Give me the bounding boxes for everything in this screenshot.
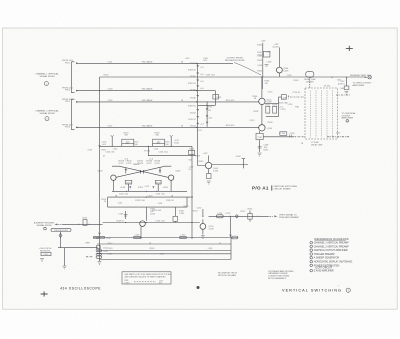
svg-text:TRIG PICKOFF: TRIG PICKOFF (54, 230, 69, 232)
svg-text:5-279: 5-279 (146, 163, 152, 165)
svg-text:93Ω CABLE: 93Ω CABLE (142, 99, 154, 102)
svg-text:93Ω CABLE: 93Ω CABLE (142, 60, 154, 63)
svg-text:DL160: DL160 (324, 86, 331, 88)
svg-text:+12V: +12V (185, 58, 190, 60)
svg-text:PIN 4: PIN 4 (65, 90, 71, 92)
svg-text:CIRCUIT BOARD: CIRCUIT BOARD (274, 188, 292, 191)
svg-text:(DCPL): (DCPL) (338, 84, 345, 86)
svg-text:TRIGGER PREAMP: TRIGGER PREAMP (279, 216, 299, 219)
svg-text:C120 .001: C120 .001 (119, 194, 129, 196)
svg-text:C132 .001: C132 .001 (155, 221, 165, 223)
svg-text:5-279: 5-279 (154, 163, 160, 165)
svg-text:CR112: CR112 (190, 112, 197, 114)
svg-text:5-339: 5-339 (267, 102, 273, 104)
svg-text:P/O A1: P/O A1 (252, 186, 269, 191)
svg-text:434 OSCILLOSCOPE: 434 OSCILLOSCOPE (60, 287, 101, 291)
svg-text:50Ω: 50Ω (340, 88, 344, 90)
svg-text:+25V: +25V (261, 41, 266, 43)
svg-text:R123 2.4K: R123 2.4K (135, 200, 145, 202)
svg-text:R116 470: R116 470 (226, 125, 235, 127)
svg-text:SIGNAL FROM: SIGNAL FROM (40, 112, 55, 115)
svg-text:+12V: +12V (197, 130, 202, 132)
svg-text:93Ω CABLE: 93Ω CABLE (142, 124, 154, 127)
svg-text:DELAY LINE: DELAY LINE (311, 144, 323, 147)
svg-text:5-279: 5-279 (118, 163, 124, 165)
svg-text:PIN 2: PIN 2 (65, 62, 71, 64)
svg-text:CR110: CR110 (190, 97, 197, 99)
svg-text:C109 .001: C109 .001 (205, 75, 215, 77)
svg-text:& CRT CIRCUIT: & CRT CIRCUIT (315, 268, 332, 270)
svg-text:CHANNEL 2 VERTICAL PREAMP: CHANNEL 2 VERTICAL PREAMP (314, 245, 349, 248)
svg-text:R118 47: R118 47 (116, 221, 124, 223)
svg-text:C126 .001: C126 .001 (158, 151, 168, 153)
svg-text:TRIGGER PICKOFF: TRIGGER PICKOFF (224, 60, 245, 62)
svg-text:2.4V: 2.4V (88, 149, 93, 151)
svg-text:CR104: CR104 (190, 63, 197, 65)
svg-text:(DCPL): (DCPL) (273, 47, 280, 49)
svg-text:C116 .001: C116 .001 (105, 151, 115, 153)
svg-text:VOLT: VOLT (125, 282, 131, 284)
svg-text:R105 1K: R105 1K (188, 83, 196, 85)
svg-text:+12V: +12V (203, 153, 208, 155)
svg-text:VERTICAL OUTPUT AMPLIFIER: VERTICAL OUTPUT AMPLIFIER (314, 249, 348, 252)
svg-text:93Ω: 93Ω (295, 106, 299, 108)
svg-text:Z AXIS AMPLIFIER: Z AXIS AMPLIFIER (314, 270, 334, 273)
svg-text:CR108: CR108 (190, 89, 197, 91)
svg-text:C170 18: C170 18 (292, 92, 300, 94)
svg-text:+8.8V: +8.8V (120, 187, 126, 189)
svg-text:CHANNEL 1 VERTICAL PREAMP: CHANNEL 1 VERTICAL PREAMP (314, 242, 349, 245)
svg-text:TRIGGER PREAMP: TRIGGER PREAMP (314, 253, 335, 256)
svg-text:HORIZONTAL DISPLAY SWITCHING: HORIZONTAL DISPLAY SWITCHING (314, 261, 353, 264)
svg-text:WITH DIAGRAM 2: WITH DIAGRAM 2 (268, 277, 287, 280)
svg-text:TRACE: TRACE (133, 163, 140, 166)
svg-text:PIN 2: PIN 2 (65, 101, 71, 103)
svg-text:PIN 4: PIN 4 (65, 127, 71, 129)
svg-text:C130 .001: C130 .001 (155, 194, 165, 196)
svg-text:A SWEEP GENERATOR: A SWEEP GENERATOR (314, 257, 340, 260)
svg-text:R125 24: R125 24 (166, 200, 174, 202)
svg-text:TP120: TP120 (144, 151, 151, 153)
svg-text:DELAYED VERT SIG: DELAYED VERT SIG (350, 74, 371, 77)
svg-text:R103 1K: R103 1K (188, 70, 196, 72)
svg-text:5-339: 5-339 (209, 229, 215, 231)
svg-text:+8.8V: +8.8V (163, 187, 169, 189)
svg-text:93Ω: 93Ω (336, 132, 340, 134)
svg-text:93Ω CABLE: 93Ω CABLE (142, 88, 154, 91)
svg-text:AMPLIFIER: AMPLIFIER (353, 84, 365, 87)
svg-text:VERTICAL SWITCHING: VERTICAL SWITCHING (282, 289, 342, 293)
svg-text:WITH NO SIGNAL: WITH NO SIGNAL (218, 274, 237, 277)
svg-text:5-339: 5-339 (213, 170, 219, 172)
svg-text:CR114: CR114 (190, 126, 197, 128)
svg-text:NETWORK: NETWORK (40, 250, 51, 252)
svg-text:R115 470: R115 470 (226, 100, 235, 102)
svg-text:50Ω: 50Ω (337, 80, 341, 82)
svg-text:REFERENCE DIAGRAMS: REFERENCE DIAGRAMS (315, 237, 349, 241)
svg-text:SIGNAL FROM: SIGNAL FROM (37, 224, 52, 227)
svg-text:R111 1K: R111 1K (188, 119, 196, 121)
svg-text:5%: 5% (159, 283, 162, 285)
svg-text:Q128: Q128 (175, 170, 181, 172)
svg-text:MFD: MFD (86, 243, 91, 245)
svg-text:AND EARLIER VALUES OF PARTS MA: AND EARLIER VALUES OF PARTS MARKED (125, 275, 167, 278)
svg-text:SIGNAL FROM: SIGNAL FROM (40, 75, 55, 78)
svg-text:R109 1K: R109 1K (188, 105, 196, 107)
svg-text:5-339: 5-339 (283, 71, 289, 73)
svg-text:CR106: CR106 (190, 76, 197, 78)
svg-text:5-279: 5-279 (126, 163, 132, 165)
